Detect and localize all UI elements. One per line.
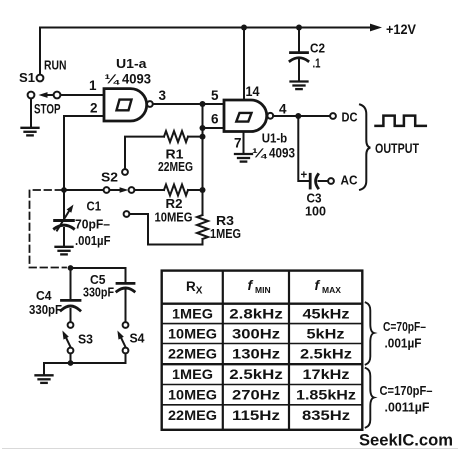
svg-text:DC: DC xyxy=(342,110,359,125)
svg-text:.0011µF: .0011µF xyxy=(385,400,430,415)
capacitor C1 (variable) xyxy=(55,190,74,231)
wire rail to S1 xyxy=(39,28,41,75)
svg-text:SeekIC.com: SeekIC.com xyxy=(359,431,453,450)
svg-text:2.5kHz: 2.5kHz xyxy=(300,347,352,362)
svg-text:5: 5 xyxy=(211,88,219,103)
svg-text:7: 7 xyxy=(234,136,242,151)
S2 throw contact R3 xyxy=(124,211,130,217)
svg-text:¼: ¼ xyxy=(105,73,121,87)
wire pin3 to pin5 xyxy=(153,103,224,105)
resistor R1 xyxy=(125,131,203,169)
switch S1 STOP contact xyxy=(28,92,35,99)
switch S4 pivot contact xyxy=(123,348,129,354)
svg-text:C1: C1 xyxy=(87,200,102,214)
svg-text:S3: S3 xyxy=(78,332,93,347)
switch S4 lever xyxy=(117,331,125,348)
wire +12V rail xyxy=(40,27,371,29)
capacitor C5 xyxy=(117,268,134,322)
ground (bottom) xyxy=(36,375,53,383)
svg-text:10MEG: 10MEG xyxy=(155,210,193,225)
nand gate U1-b xyxy=(224,100,267,132)
wire pin6 input xyxy=(203,127,225,129)
svg-text:.001µF: .001µF xyxy=(75,233,111,248)
svg-text:U1-a: U1-a xyxy=(116,57,148,71)
svg-text:RUN: RUN xyxy=(44,58,67,73)
svg-text:17kHz: 17kHz xyxy=(303,367,350,382)
U1-b output bubble xyxy=(267,113,273,119)
wire pin2 input xyxy=(64,116,104,190)
svg-text:¼: ¼ xyxy=(252,147,268,161)
svg-text:22MEG: 22MEG xyxy=(168,347,217,362)
table frequency chart xyxy=(162,271,363,430)
node pin2/S2/C1 junction xyxy=(61,187,67,193)
switch S3 pivot contact xyxy=(68,348,74,354)
svg-text:4093: 4093 xyxy=(269,145,295,161)
wire rail to C2 xyxy=(298,28,300,52)
svg-text:300Hz: 300Hz xyxy=(232,326,280,341)
node pin3/pin5 junction xyxy=(200,101,206,107)
svg-text:22MEG: 22MEG xyxy=(158,159,193,174)
svg-text:1MEG: 1MEG xyxy=(172,367,213,382)
svg-text:330pF: 330pF xyxy=(83,285,114,300)
wire pin14 to rail xyxy=(243,28,245,101)
resistor R2 xyxy=(134,185,202,196)
svg-text:2.5kHz: 2.5kHz xyxy=(229,367,283,382)
dashed link S1/C1 gang xyxy=(30,190,67,268)
wire C2 to ground xyxy=(298,60,300,81)
ground (C2) xyxy=(291,82,308,90)
svg-text:70pF–: 70pF– xyxy=(75,217,110,232)
output brace xyxy=(360,105,370,190)
capacitor C4 xyxy=(61,268,80,322)
svg-text:C=170pF–: C=170pF– xyxy=(380,383,433,398)
node output junction xyxy=(295,113,301,119)
node pin6 junction xyxy=(200,125,206,131)
switch S3 lever xyxy=(62,331,70,348)
svg-text:1: 1 xyxy=(89,78,97,93)
S2 throw contact R1 xyxy=(122,169,128,175)
svg-text:10MEG: 10MEG xyxy=(168,387,217,402)
ground (STOP) xyxy=(22,128,39,136)
wire pin4 output xyxy=(273,115,330,117)
table brace C=70pF group xyxy=(366,303,374,365)
svg-text:130Hz: 130Hz xyxy=(232,347,280,362)
resistor R3 xyxy=(129,214,208,245)
wire junction to C5 branch xyxy=(71,267,126,269)
svg-text:3: 3 xyxy=(159,88,167,103)
node R2/R3 junction xyxy=(200,187,206,193)
svg-text:1.85kHz: 1.85kHz xyxy=(296,387,356,402)
svg-text:S2: S2 xyxy=(101,170,118,185)
svg-text:115Hz: 115Hz xyxy=(232,408,280,423)
wire bottom rail to ground xyxy=(43,363,45,375)
svg-text:.001µF: .001µF xyxy=(385,336,422,351)
switch S1 lever xyxy=(47,94,54,96)
svg-text:14: 14 xyxy=(246,84,260,99)
square wave symbol xyxy=(376,116,426,126)
svg-text:2: 2 xyxy=(90,101,98,116)
svg-text:10MEG: 10MEG xyxy=(168,326,217,341)
svg-text:835Hz: 835Hz xyxy=(302,408,350,423)
node C4/C5 junction xyxy=(68,265,74,271)
svg-text:+: + xyxy=(301,170,308,182)
wire output to C3 xyxy=(298,116,308,181)
node R1 junction xyxy=(200,134,206,140)
svg-text:270Hz: 270Hz xyxy=(232,387,280,402)
svg-text:4: 4 xyxy=(279,102,287,117)
node rail/C2 junction xyxy=(296,25,302,31)
svg-text:U1-b: U1-b xyxy=(262,132,288,146)
svg-text:1MEG: 1MEG xyxy=(210,226,241,241)
switch S4 upper contact xyxy=(123,322,129,328)
node rail/pin14 junction xyxy=(241,25,247,31)
svg-text:C4: C4 xyxy=(36,289,52,303)
wire pin7 to ground xyxy=(243,132,245,154)
svg-text:45kHz: 45kHz xyxy=(303,306,350,321)
table brace C=170pF group xyxy=(366,368,374,428)
svg-text:C2: C2 xyxy=(310,42,325,56)
svg-text:OUTPUT: OUTPUT xyxy=(375,140,419,156)
svg-text:S4: S4 xyxy=(130,331,146,346)
wire junction to S2 xyxy=(64,189,104,191)
wire S1 common to pin 1 xyxy=(61,94,105,96)
wire C1 to ground xyxy=(63,228,65,246)
wire STOP contact to ground xyxy=(30,99,32,128)
switch S1 RUN contact xyxy=(37,75,44,82)
svg-text:S1: S1 xyxy=(19,70,35,85)
wire junction vertical xyxy=(202,104,204,215)
U1-a output bubble xyxy=(147,101,153,107)
capacitor C3 xyxy=(310,174,318,188)
switch S1 common contact xyxy=(54,92,61,99)
U1-a schmitt symbol xyxy=(117,100,132,111)
svg-text:2.8kHz: 2.8kHz xyxy=(229,306,283,321)
ground (C1) xyxy=(56,247,73,255)
svg-text:+12V: +12V xyxy=(386,21,417,37)
svg-text:AC: AC xyxy=(341,173,359,188)
svg-text:5kHz: 5kHz xyxy=(307,326,345,341)
svg-text:STOP: STOP xyxy=(34,101,61,117)
svg-text:6: 6 xyxy=(211,112,219,127)
+12V supply arrow xyxy=(370,24,382,32)
ground (pin 7) xyxy=(235,154,252,162)
svg-text:100: 100 xyxy=(305,205,326,219)
DC output terminal xyxy=(330,113,336,119)
switch S2 common contact xyxy=(104,187,110,193)
capacitor C2 xyxy=(290,53,308,61)
svg-text:MIN: MIN xyxy=(255,285,271,295)
node bottom rail junction xyxy=(68,360,74,366)
nand gate U1-a xyxy=(104,89,147,121)
S2 throw contact R2 xyxy=(129,187,135,193)
svg-text:22MEG: 22MEG xyxy=(168,408,217,423)
svg-text:4093: 4093 xyxy=(122,71,151,87)
AC output terminal xyxy=(328,178,334,184)
wire S3 to bottom rail xyxy=(70,354,72,364)
svg-text:C3: C3 xyxy=(307,192,322,206)
svg-text:1MEG: 1MEG xyxy=(172,306,213,321)
scan artifact line xyxy=(2,448,458,450)
svg-text:C=70pF–: C=70pF– xyxy=(383,319,426,334)
wire bottom rail xyxy=(44,362,126,364)
svg-text:.1: .1 xyxy=(313,57,321,71)
switch S3 upper contact xyxy=(68,322,74,328)
U1-b schmitt symbol xyxy=(236,113,251,122)
svg-text:MAX: MAX xyxy=(322,285,341,295)
wire S4 to bottom rail xyxy=(125,354,127,364)
wire C3 to AC terminal xyxy=(319,180,329,182)
switch S2 lever xyxy=(110,189,121,191)
svg-text:330pF: 330pF xyxy=(29,302,62,317)
